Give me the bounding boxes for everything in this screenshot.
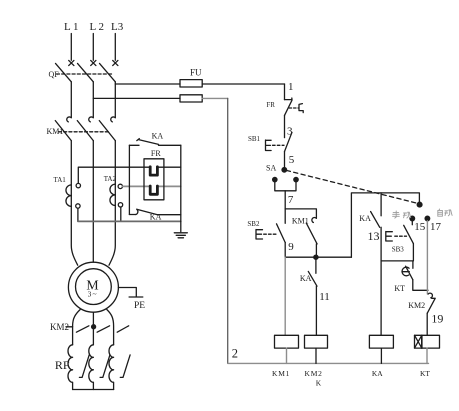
wire KM1 to motor phase1: [71, 141, 77, 266]
wire node 2 bottom rail: [228, 362, 429, 364]
wire node7 to SB2: [284, 209, 286, 223]
rheostat RF winding 1: [68, 345, 73, 390]
transformer TA2 secondary top: [118, 184, 122, 188]
svg-text:TA1: TA1: [54, 176, 67, 184]
svg-text:KA: KA: [152, 132, 164, 141]
svg-text:FR: FR: [151, 149, 161, 158]
coil KA: [369, 335, 393, 348]
transformer TA2 secondary bottom: [118, 203, 122, 207]
svg-text:L 1: L 1: [64, 21, 79, 33]
svg-text:PE: PE: [134, 301, 145, 311]
relay contact KA-11 NO: [308, 257, 317, 286]
coil KM2: [305, 335, 328, 348]
svg-text:KA: KA: [359, 214, 371, 223]
wire KA-13 to KA coil: [380, 227, 382, 335]
svg-text:3~: 3~: [88, 289, 98, 298]
relay contact KA-13 NO: [371, 193, 382, 227]
svg-text:19: 19: [431, 312, 443, 326]
wire rotor phase2: [92, 312, 94, 345]
wire TA1 top to relay box: [78, 167, 181, 183]
wire QF to KM1 phase1: [70, 82, 72, 118]
wire L3 tap to FU upper: [115, 83, 180, 85]
coil KT: [415, 335, 440, 348]
breaker QF linkage dashed: [57, 73, 113, 75]
svg-text:KT: KT: [394, 284, 405, 293]
svg-text:L 2: L 2: [90, 21, 105, 33]
switch SA right pivot node: [417, 202, 422, 207]
wire L1 supply: [70, 34, 72, 61]
coil KT X mark: [415, 335, 422, 348]
thermal relay FR heater upper: [150, 167, 157, 175]
svg-text:FU: FU: [190, 68, 202, 78]
junction dot node 9 branch: [314, 255, 318, 259]
contactor KM2 rotor blade 2: [97, 326, 110, 332]
label auto: [438, 209, 452, 216]
transformer TA2 primary: [110, 184, 115, 205]
svg-text:1: 1: [288, 81, 294, 93]
coil KT bottom stub: [426, 348, 428, 363]
wire TA2 bottom to rail: [120, 207, 122, 221]
rheostat RF slash 1: [79, 355, 89, 378]
wire tie 13 to SB3 branch: [381, 260, 413, 262]
wire branch to KM1 aux: [285, 209, 316, 218]
button SB3 NO: [386, 221, 414, 244]
coil KM1 bottom stub: [286, 348, 288, 363]
svg-text:KM2: KM2: [408, 301, 425, 310]
fuse FU upper: [180, 80, 202, 87]
transformer TA1 secondary bottom: [76, 204, 80, 208]
breaker QF pole 1: [56, 60, 74, 81]
relay KA bottom contact: [129, 209, 180, 215]
svg-text:K: K: [316, 379, 322, 388]
wire SA to node 7: [284, 191, 286, 209]
svg-text:KA: KA: [372, 369, 383, 378]
switch SA contact dot 17: [425, 216, 430, 221]
contactor KM2 label tick: [66, 326, 73, 328]
wire TA2 top to relay box: [123, 185, 181, 187]
motor M outer circle: [68, 262, 118, 312]
wire rotor phase1: [73, 310, 81, 345]
svg-text:17: 17: [430, 221, 442, 233]
svg-text:SB2: SB2: [247, 220, 260, 228]
PE earth bar: [129, 296, 143, 298]
thermal relay FR heater lower: [150, 186, 157, 194]
wire secondary bottom rail: [78, 220, 181, 222]
wire L2 tap to FU lower: [93, 97, 180, 99]
contact KM1 aux NO: [306, 218, 317, 244]
button SB2 NO: [256, 224, 285, 243]
switch SA contact dot right: [294, 177, 298, 181]
contactor KM1 linkage dashed: [59, 131, 111, 133]
thermal relay FR box: [144, 159, 164, 200]
wire KM1 aux to junction: [315, 244, 317, 257]
wire rotor phase3: [107, 310, 114, 345]
ground: [174, 221, 187, 237]
coil KT divider: [421, 335, 423, 348]
breaker QF pole 2: [78, 60, 96, 81]
rheostat RF slash 2: [100, 355, 110, 378]
time contact KT delayed NO: [402, 266, 413, 280]
rheostat RF winding 3: [109, 345, 114, 390]
relay KA top contact: [129, 139, 180, 146]
wire PE connection: [118, 288, 136, 297]
wire FU upper to control node 1: [202, 83, 284, 85]
svg-text:L3: L3: [111, 21, 124, 33]
wire L2 supply: [92, 34, 94, 61]
wire L3 supply: [114, 34, 116, 61]
wire SB1 to SA: [284, 152, 286, 168]
coil KA bottom stub: [380, 348, 382, 363]
wire node 2 long vertical: [227, 98, 229, 363]
svg-text:11: 11: [319, 291, 330, 303]
switch SA pivot node: [282, 168, 287, 173]
thermal contact FR NC: [285, 98, 304, 115]
svg-text:7: 7: [288, 194, 294, 206]
switch SA bracket: [275, 182, 296, 191]
wire rotor star rail: [73, 389, 114, 391]
switch SA contact dot 15: [410, 216, 415, 221]
wire KM1 to motor phase2: [92, 141, 94, 263]
svg-text:FR: FR: [266, 101, 275, 109]
contactor KM1 pole 3: [99, 117, 115, 141]
label manual: [393, 211, 411, 218]
wire KM2-19 to KT coil: [426, 313, 428, 335]
motor M inner circle: [76, 269, 112, 305]
transformer TA1 secondary top: [76, 183, 80, 187]
wire node 9 horizontal: [285, 256, 351, 258]
contactor KM1 pole 2: [77, 117, 93, 141]
wire relay box right vertical: [180, 145, 182, 221]
wire FR to SB1: [284, 115, 286, 137]
wire KM1 to motor phase3: [109, 141, 115, 266]
wire 17 branch down: [426, 221, 428, 294]
wire KA-11 to KM2 coil: [315, 286, 317, 335]
button SB1 NC: [266, 132, 293, 151]
wire QF to KM1 phase2: [92, 82, 94, 118]
coil KM1: [275, 335, 299, 348]
contactor KM1 pole 1: [55, 117, 71, 141]
coil KM2 bottom stub: [315, 348, 317, 363]
contactor KM2 rotor blade 3: [117, 326, 129, 332]
wire relay box left vertical: [128, 145, 130, 214]
wire control main top: [284, 84, 286, 100]
contact KM2-19 NO: [427, 293, 435, 313]
wire KT contact to junction 17: [413, 280, 428, 291]
wire FU lower to node 2 vertical: [202, 97, 228, 99]
svg-text:SA: SA: [266, 163, 276, 172]
svg-text:15: 15: [414, 221, 426, 233]
svg-text:5: 5: [289, 154, 295, 166]
svg-text:TA2: TA2: [104, 175, 117, 183]
svg-text:KM2: KM2: [305, 369, 323, 378]
wire SB3 to tie: [412, 244, 415, 269]
contactor KM2 rotor blade 1: [76, 326, 89, 332]
rheostat RF winding 2: [89, 345, 94, 390]
svg-text:KM1: KM1: [272, 369, 290, 378]
wire node 9 to KM1 coil: [284, 257, 286, 335]
wire QF to KM1 phase3: [114, 82, 116, 118]
switch SA contact dot left: [273, 177, 277, 181]
breaker QF pole 3: [100, 60, 118, 81]
rheostat RF slash 3: [120, 355, 130, 378]
svg-text:SB3: SB3: [392, 245, 405, 253]
svg-text:2: 2: [232, 346, 238, 360]
svg-text:9: 9: [288, 241, 294, 253]
wire up right section: [351, 193, 419, 257]
wire SB2 to node 9: [284, 243, 286, 258]
transformer TA1 primary: [66, 185, 71, 206]
svg-text:SB1: SB1: [248, 135, 261, 143]
svg-text:KT: KT: [420, 369, 430, 378]
switch SA linkage dashed: [286, 170, 417, 203]
fuse FU lower: [180, 95, 202, 102]
svg-text:13: 13: [368, 229, 380, 243]
junction rotor middle: [92, 325, 96, 329]
wire TA1 bottom to rail: [77, 208, 79, 221]
